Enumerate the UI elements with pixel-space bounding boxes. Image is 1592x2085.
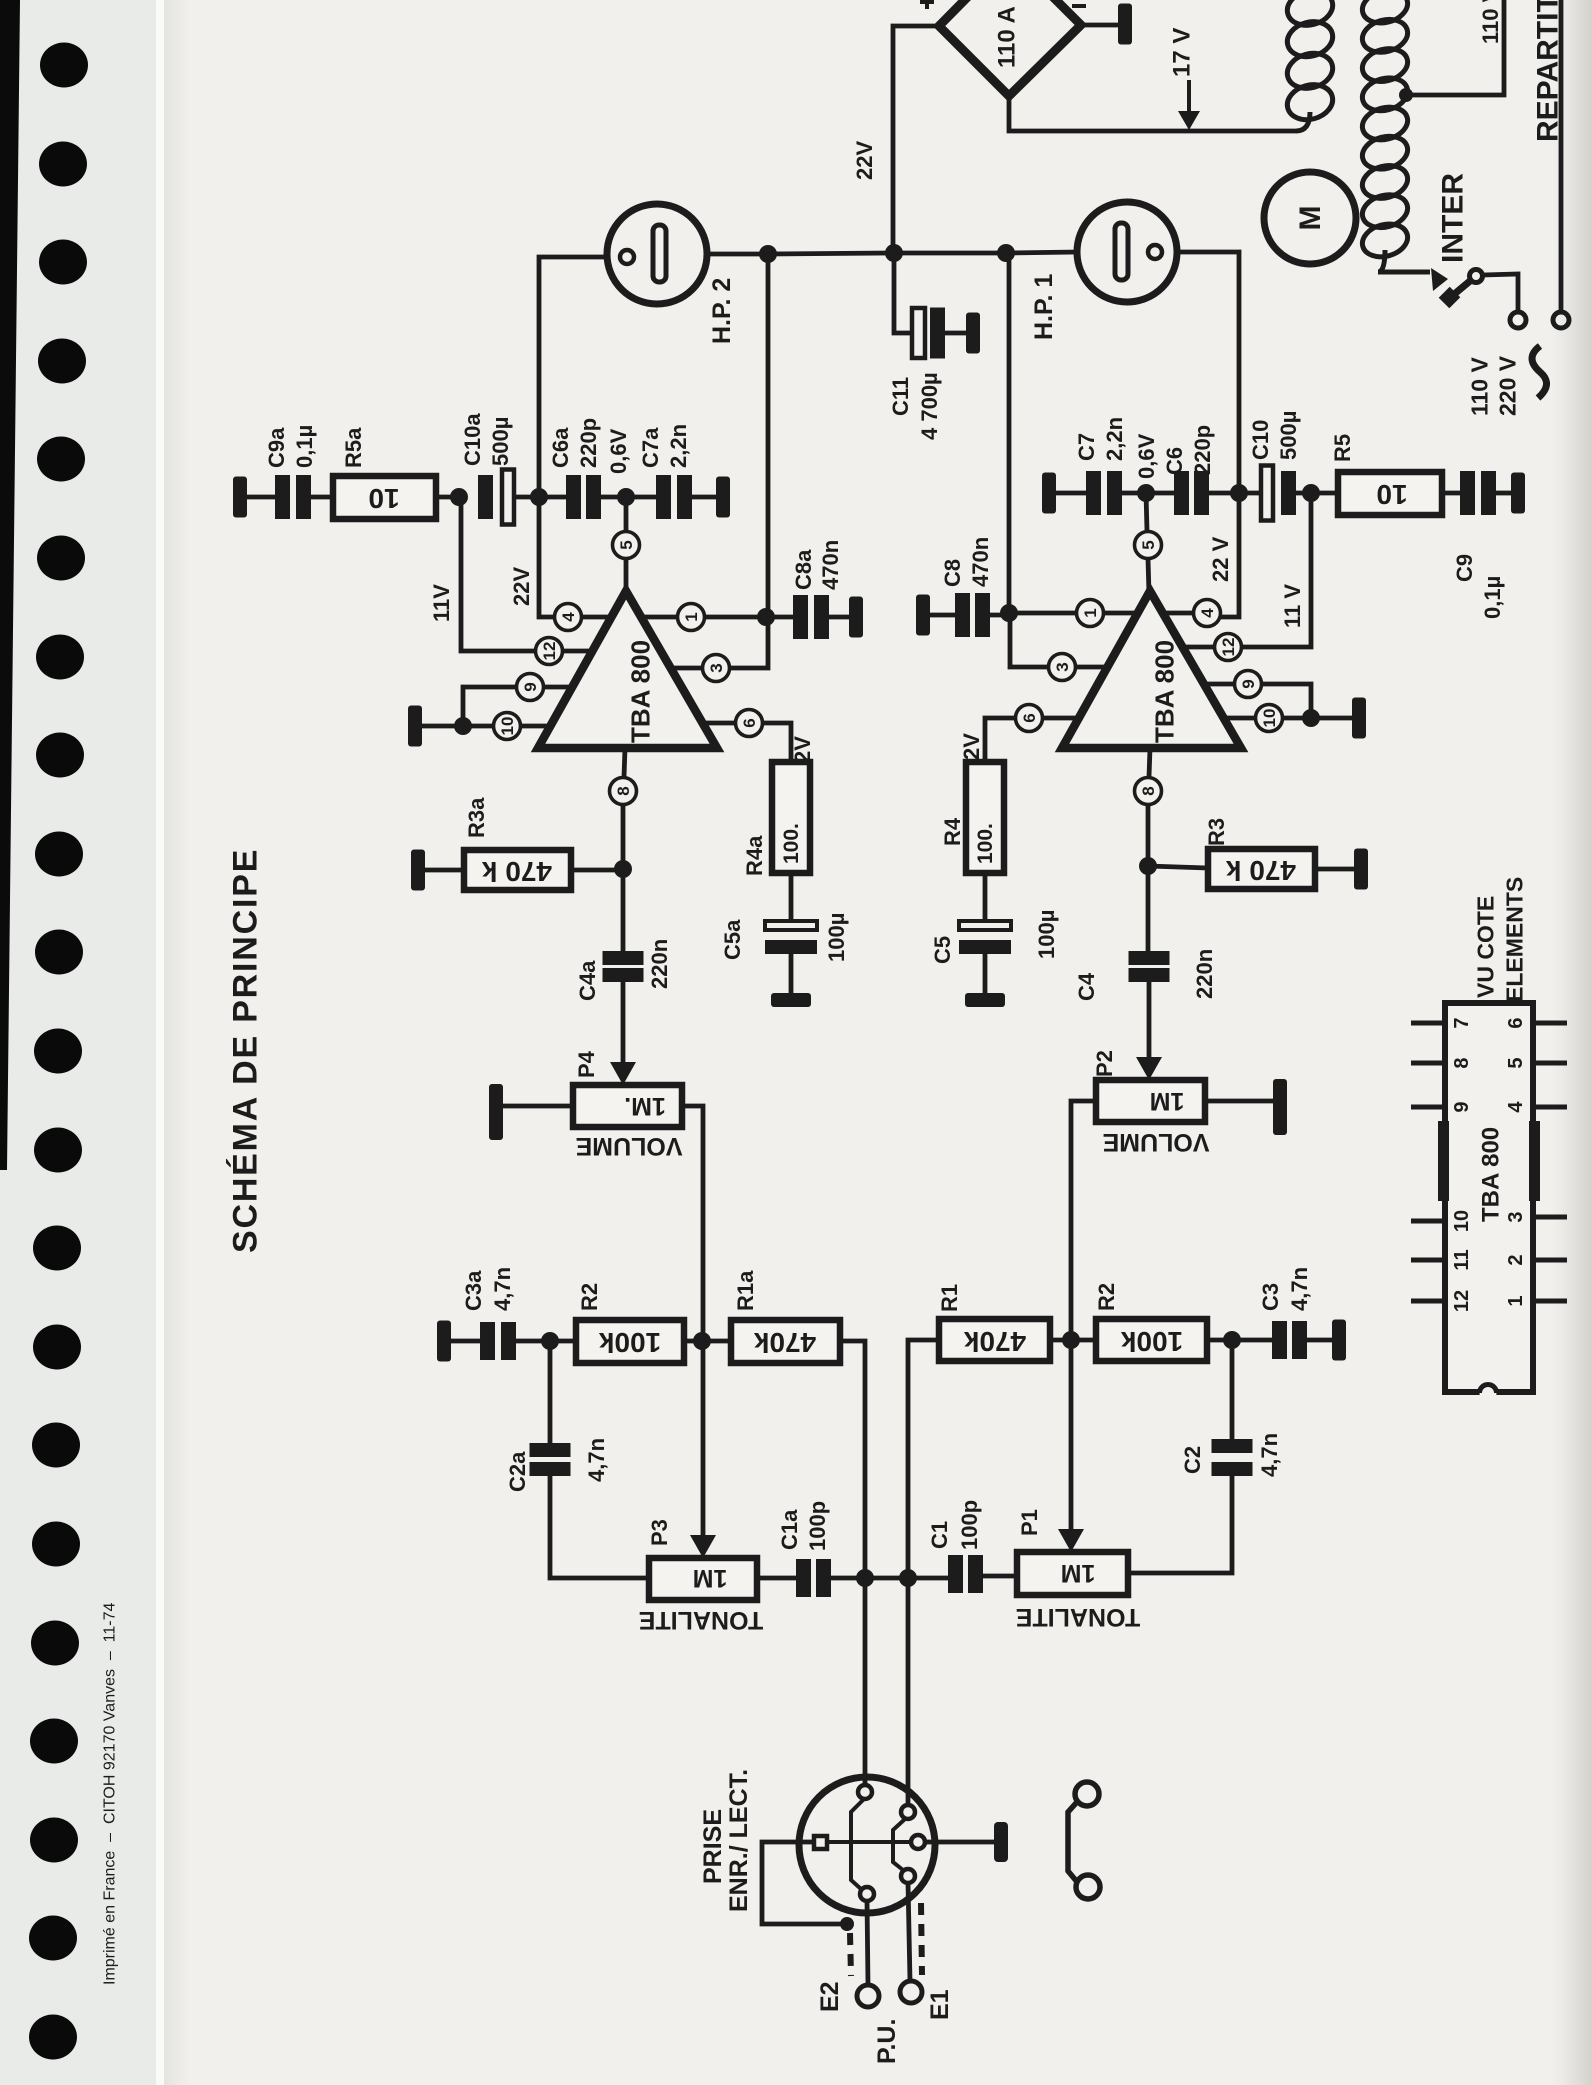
wire E2 line down to connector [863, 1578, 868, 1785]
svg-text:22V: 22V [509, 567, 534, 606]
svg-text:470k: 470k [963, 1326, 1026, 1357]
potentiometer P4 [573, 1085, 682, 1127]
svg-text:TONALITE: TONALITE [1016, 1603, 1141, 1631]
svg-text:C6: C6 [1162, 447, 1187, 475]
svg-text:100µ: 100µ [1034, 910, 1059, 959]
label + (bridge) [920, 0, 934, 9]
svg-text:10: 10 [1451, 1210, 1473, 1232]
svg-text:100p: 100p [805, 1501, 830, 1551]
svg-text:E1: E1 [926, 1989, 954, 2020]
pin 9 (TBA800 a) [517, 674, 544, 701]
svg-text:10: 10 [1260, 709, 1279, 728]
svg-text:100p: 100p [957, 1500, 982, 1550]
svg-text:C9a: C9a [264, 427, 289, 468]
wiper arrow into P1 [1069, 1338, 1074, 1531]
pin 1 (TBA800 a) [678, 604, 705, 631]
svg-text:470n: 470n [818, 540, 843, 590]
pin 12 (TBA800 1) [1215, 634, 1242, 661]
resistor R5a [333, 476, 436, 519]
wiper arrow into P4 [610, 1062, 636, 1085]
capacitor C6 (1) [1146, 491, 1174, 496]
pin 4 (TBA800 a) [555, 604, 582, 631]
label - (bridge) [1072, 4, 1086, 8]
wire 22V node down to pin 4 [539, 497, 556, 617]
resistor R3a [464, 850, 571, 890]
supply rail 22V (top) [768, 252, 1078, 254]
svg-text:H.P. 2: H.P. 2 [708, 278, 736, 344]
svg-text:VOLUME: VOLUME [1103, 1128, 1210, 1156]
capacitor C7a [626, 495, 656, 500]
node C3a/R2/C2a [541, 1332, 559, 1350]
svg-text:C7: C7 [1074, 433, 1099, 461]
node pin8/R3a/C4a [614, 860, 632, 878]
svg-text:3: 3 [707, 663, 726, 672]
speaker H.P.1 [1077, 202, 1177, 302]
svg-text:P1: P1 [1017, 1509, 1042, 1536]
svg-text:4: 4 [1198, 608, 1217, 618]
capacitor C1a [757, 1576, 796, 1581]
potentiometer P1 [1017, 1552, 1128, 1595]
svg-text:R4: R4 [940, 817, 965, 846]
node (R5a / C10a / 11V) [450, 488, 468, 506]
connector PRISE ENR./LECT. [799, 1777, 935, 1913]
pin 3 (TBA800 a) [703, 655, 730, 682]
svg-text:C6a: C6a [548, 427, 573, 468]
capacitor C8 (1) [916, 595, 930, 636]
resistor R3 (1) [1208, 849, 1315, 889]
capacitor C3a [437, 1321, 451, 1362]
svg-text:9: 9 [521, 682, 540, 691]
svg-text:R1a: R1a [733, 1270, 758, 1311]
dashed link E1 [921, 1903, 922, 1975]
svg-text:10: 10 [498, 717, 517, 736]
wire 11V down to pin 12 (1) [1242, 493, 1311, 647]
node output a (pin1/pin3/C8a) [757, 608, 775, 626]
capacitor C10a (electrolytic) [478, 475, 493, 519]
capacitor C2 (1) [1230, 1340, 1235, 1439]
svg-text:220p: 220p [1190, 425, 1215, 475]
svg-text:INTER: INTER [1437, 173, 1470, 263]
ground (connector) [994, 1822, 1008, 1862]
svg-text:VOLUME: VOLUME [576, 1132, 683, 1160]
svg-text:4,7n: 4,7n [490, 1267, 515, 1311]
potentiometer P3 [649, 1558, 757, 1600]
capacitor C10 (electrolytic) (1) [1239, 491, 1261, 496]
connector pin square [814, 1836, 827, 1849]
svg-text:2,2n: 2,2n [666, 424, 691, 468]
rectifier bridge 110A [939, 0, 1081, 96]
node pin8/R3/C4 (1) [1139, 857, 1157, 875]
node R2/R1a/P4 [693, 1332, 711, 1350]
wire node to pin 5 [624, 497, 629, 531]
svg-text:1M: 1M [1061, 1559, 1096, 1587]
terminal (switch) [1510, 312, 1526, 328]
dashed link E2 [850, 1933, 851, 1976]
resistor R4 (1) [966, 762, 1004, 873]
wire pin5 to apex [624, 559, 629, 594]
op-amp U1a TBA800 [538, 591, 717, 748]
wire P4 to R2/R1a node [682, 1106, 703, 1338]
svg-text:TBA 800: TBA 800 [1477, 1127, 1504, 1222]
svg-text:3: 3 [1505, 1211, 1527, 1222]
svg-text:220 V: 220 V [1495, 355, 1521, 416]
motor M [1264, 172, 1356, 264]
svg-text:0,6V: 0,6V [1134, 433, 1159, 479]
svg-text:1: 1 [682, 612, 701, 621]
speaker H.P.2 [607, 204, 707, 304]
node 0,6V (1) [1137, 484, 1155, 502]
svg-text:4: 4 [1505, 1101, 1527, 1113]
svg-text:9: 9 [1451, 1101, 1473, 1112]
svg-text:C4: C4 [1074, 972, 1099, 1001]
ground (P4) [489, 1084, 503, 1140]
svg-text:Imprimé en France – CITOH 92: Imprimé en France – CITOH 92170 Vanves –… [102, 1602, 119, 1985]
svg-text:M: M [1294, 206, 1327, 231]
primary tap 110 [1399, 88, 1413, 102]
svg-text:500µ: 500µ [488, 417, 513, 466]
svg-text:2,2n: 2,2n [1102, 417, 1127, 461]
DIP package TBA800 pinout [1445, 1003, 1533, 1392]
svg-text:8: 8 [1451, 1057, 1473, 1068]
svg-text:TONALITE: TONALITE [639, 1606, 764, 1634]
svg-text:2: 2 [1505, 1254, 1527, 1265]
connector pin right-top [901, 1805, 915, 1819]
wire bottom pin to P.U. terminal [867, 1901, 868, 1985]
svg-text:R3: R3 [1204, 818, 1229, 846]
svg-text:100.: 100. [780, 823, 803, 864]
svg-text:C5: C5 [930, 936, 955, 964]
wire 22V node up to H.P.2 [539, 257, 607, 497]
svg-text:C8a: C8a [791, 549, 816, 590]
connector pin right-bottom [901, 1869, 915, 1883]
node 22V (1) [1230, 484, 1248, 502]
ground (C5a) [771, 993, 811, 1007]
svg-text:0,1µ: 0,1µ [292, 425, 317, 468]
connector left lead [762, 1842, 845, 1924]
svg-text:8: 8 [1139, 786, 1158, 795]
capacitor C6a [539, 495, 566, 500]
svg-text:12: 12 [1219, 638, 1238, 657]
node 0,6V (pin 5) [617, 488, 635, 506]
ground (pin 10 a) [408, 706, 422, 747]
svg-text:12: 12 [1451, 1290, 1473, 1312]
capacitor C2a [548, 1341, 553, 1443]
svg-text:6: 6 [740, 718, 759, 727]
transformer primary winding [1359, 0, 1412, 28]
svg-text:4,7n: 4,7n [1287, 1267, 1312, 1311]
wire P2 left lead down [1071, 1101, 1096, 1338]
terminal (mains) [1553, 312, 1569, 328]
jumper link (cavalier) [1075, 1782, 1099, 1806]
svg-text:22 V: 22 V [1208, 536, 1233, 582]
svg-text:R3a: R3a [464, 797, 489, 838]
svg-text:100k: 100k [598, 1327, 661, 1358]
svg-text:R2: R2 [577, 1283, 602, 1311]
node R1/R2/P2 (1) [1062, 1331, 1080, 1349]
wire H.P.1 leg down to pin 1 node [1007, 253, 1012, 613]
arrow 17V [1187, 80, 1191, 112]
svg-text:VU COTE: VU COTE [1473, 896, 1499, 998]
svg-text:8: 8 [614, 786, 633, 795]
svg-text:ELEMENTS: ELEMENTS [1502, 877, 1528, 1002]
pin 8 (TBA800 1) [1135, 778, 1162, 805]
svg-text:470 k: 470 k [1226, 855, 1296, 886]
connector pin bottom [860, 1887, 874, 1901]
svg-text:6: 6 [1505, 1017, 1527, 1028]
node rail/H.P.1 [997, 244, 1015, 262]
pin 5 (TBA800 a) [613, 532, 640, 559]
mains line (repartiteur) [1559, 0, 1564, 311]
ground (C9) [1511, 473, 1525, 514]
node C1/R1/E1 [899, 1569, 917, 1587]
pin 9 (TBA800 1) [1235, 671, 1262, 698]
svg-text:5: 5 [1505, 1057, 1527, 1068]
wire input bus [865, 1576, 908, 1581]
node (connector left lead) [840, 1917, 854, 1931]
pin 10 (TBA800 a) [494, 713, 521, 740]
resistor R2 (a) [576, 1320, 684, 1363]
capacitor C4a [621, 869, 626, 951]
wire pin5 to apex (1) [1148, 559, 1149, 594]
svg-text:1M: 1M [1150, 1087, 1185, 1115]
svg-text:P3: P3 [647, 1519, 672, 1546]
svg-text:1M: 1M [693, 1564, 728, 1592]
svg-text:470k: 470k [753, 1327, 816, 1358]
svg-text:0,1µ: 0,1µ [1480, 576, 1505, 619]
svg-text:H.P. 1: H.P. 1 [1030, 274, 1058, 340]
svg-text:100k: 100k [1120, 1326, 1183, 1357]
svg-text:R4a: R4a [742, 835, 767, 876]
pin 10 (TBA800 1) [1256, 705, 1283, 732]
svg-text:C3a: C3a [461, 1270, 486, 1311]
svg-text:11V: 11V [429, 584, 454, 622]
svg-text:C2: C2 [1180, 1446, 1205, 1474]
capacitor C9 (1) [1442, 491, 1460, 496]
svg-text:C8: C8 [940, 559, 965, 587]
resistor R2 (1) [1096, 1319, 1207, 1361]
node H.P.2 right [759, 245, 777, 263]
svg-text:500µ: 500µ [1276, 411, 1301, 460]
ground (R3a) [411, 850, 425, 891]
svg-text:0,6V: 0,6V [606, 428, 631, 474]
wiper arrow into P3 [701, 1341, 706, 1537]
potentiometer P2 [1096, 1080, 1205, 1122]
svg-text:11 V: 11 V [1280, 584, 1305, 628]
svg-text:7: 7 [1451, 1017, 1473, 1028]
capacitor C5 (electrolytic) (1) [983, 873, 988, 919]
node R2/C3/C2 (1) [1223, 1331, 1241, 1349]
wire bridge + to rail (22V) [893, 26, 939, 251]
resistor R1a [731, 1320, 840, 1363]
resistor R4a [772, 762, 810, 873]
node 11V (1) [1302, 484, 1320, 502]
ground (pin 10 1) [1352, 698, 1366, 739]
wire H.P.2 to output node [707, 252, 768, 257]
svg-text:R2: R2 [1094, 1283, 1119, 1311]
svg-text:6: 6 [1020, 713, 1039, 722]
ground (C5 1) [965, 993, 1005, 1007]
capacitor C5a (electrolytic) [789, 873, 794, 919]
svg-text:C2a: C2a [505, 1451, 530, 1492]
node rail/bridge [885, 244, 903, 262]
pin 5 (TBA800 1) [1135, 532, 1162, 559]
connector pin top [858, 1785, 872, 1799]
svg-text:R5: R5 [1330, 434, 1355, 462]
connector internal lead (top to bottom pin) [851, 1799, 864, 1889]
svg-text:P2: P2 [1092, 1050, 1117, 1077]
capacitor C11 4700u [894, 253, 912, 333]
svg-text:9: 9 [1239, 679, 1258, 688]
svg-text:TBA 800: TBA 800 [626, 640, 656, 743]
svg-text:470n: 470n [968, 537, 993, 587]
wire R5a to node [436, 495, 459, 500]
wire node to pin 5 (1) [1146, 493, 1147, 531]
svg-text:4,7n: 4,7n [1257, 1433, 1282, 1477]
svg-text:2V: 2V [959, 733, 984, 760]
svg-text:C3: C3 [1258, 1283, 1283, 1311]
svg-text:470 k: 470 k [482, 856, 552, 887]
svg-text:4: 4 [559, 612, 578, 622]
svg-text:22V: 22V [852, 141, 877, 180]
svg-text:220p: 220p [576, 418, 601, 468]
svg-text:C11: C11 [888, 377, 913, 416]
ground (right of C7a) [716, 477, 730, 518]
label ~ (mains) [1532, 346, 1547, 398]
wire 22V down to pin 4 (1) [1221, 493, 1239, 617]
svg-text:110 V: 110 V [1478, 0, 1503, 44]
node pin9/pin10 [454, 717, 472, 735]
svg-text:5: 5 [1139, 540, 1158, 549]
svg-text:SCHÉMA DE PRINCIPE: SCHÉMA DE PRINCIPE [227, 848, 265, 1253]
node C1a/R1a/E2 [856, 1569, 874, 1587]
svg-text:R1: R1 [937, 1284, 962, 1312]
svg-text:PRISE: PRISE [699, 1809, 727, 1884]
svg-text:220n: 220n [647, 939, 672, 989]
node pin9/pin10 (1) [1302, 709, 1320, 727]
connector center line to ground [827, 1840, 911, 1844]
ground (bridge) [1118, 4, 1132, 45]
svg-text:100µ: 100µ [824, 913, 849, 962]
svg-text:TBA 800: TBA 800 [1150, 640, 1180, 743]
switch INTER [1431, 268, 1448, 291]
ground (R3 1) [1354, 849, 1368, 890]
svg-text:1: 1 [1505, 1295, 1527, 1306]
terminal E1 [900, 1981, 922, 2003]
wire bridge ~ to transformer secondary [1009, 96, 1296, 131]
ground (C11) [966, 313, 980, 354]
svg-text:1M.: 1M. [624, 1092, 666, 1120]
connector pin right-mid [911, 1835, 925, 1849]
svg-text:ENR./ LECT.: ENR./ LECT. [725, 1769, 753, 1912]
resistor R1 (1) [939, 1319, 1050, 1361]
svg-text:P.U.: P.U. [873, 2019, 901, 2064]
svg-text:P4: P4 [574, 1050, 599, 1078]
svg-text:C9: C9 [1452, 554, 1477, 582]
pin 4 (TBA800 1) [1194, 600, 1221, 627]
ground (left of C9a) [233, 477, 247, 518]
pin 8 (TBA800 a) [610, 778, 637, 805]
svg-text:3: 3 [1053, 662, 1072, 671]
svg-text:C1: C1 [927, 1521, 952, 1549]
svg-text:1: 1 [1081, 608, 1100, 617]
wire E1 line down to connector [906, 1578, 911, 1805]
svg-text:REPARTITEUR: REPARTITEUR [1532, 0, 1565, 142]
svg-text:10: 10 [368, 483, 399, 514]
resistor R5 (1) [1311, 491, 1338, 496]
svg-text:17 V: 17 V [1168, 28, 1195, 77]
terminal P.U. [857, 1985, 879, 2007]
connector internal lead (right pins) [893, 1819, 905, 1870]
capacitor C7 (1) [1042, 473, 1056, 514]
ground (C8a) [849, 597, 863, 638]
svg-text:110 A: 110 A [993, 6, 1020, 68]
wire 11V to pin 12 [461, 497, 535, 651]
capacitor C4 (1) [1146, 866, 1151, 951]
svg-text:C4a: C4a [575, 960, 600, 1001]
svg-text:4 700µ: 4 700µ [917, 372, 942, 440]
svg-text:220n: 220n [1192, 949, 1217, 999]
svg-text:110 V: 110 V [1467, 357, 1493, 416]
pin 6 (TBA800 1) [1016, 705, 1043, 732]
op-amp U1 TBA800 (1) [1062, 591, 1241, 748]
node (C10a / H.P.2 / pin 4) 22V [530, 488, 548, 506]
wire right-bottom pin to E1 terminal [908, 1883, 910, 1981]
svg-text:10: 10 [1376, 479, 1407, 510]
transformer secondary winding [1283, 0, 1336, 30]
wire H.P.2 leg down to pin 1 node [766, 254, 771, 617]
svg-text:E2: E2 [816, 1981, 844, 2012]
svg-text:100.: 100. [974, 823, 997, 864]
svg-text:C1a: C1a [777, 1509, 802, 1550]
capacitor C8a [766, 615, 793, 620]
wiper arrow into P2 [1136, 1057, 1162, 1080]
svg-text:C10a: C10a [460, 413, 485, 466]
svg-text:11: 11 [1451, 1249, 1473, 1270]
svg-text:R5a: R5a [341, 427, 366, 468]
pin 12 (TBA800 a) [536, 638, 563, 665]
ground (P2) [1205, 1099, 1273, 1104]
svg-text:12: 12 [540, 642, 559, 661]
svg-text:C5a: C5a [720, 919, 745, 960]
svg-text:5: 5 [617, 540, 636, 549]
svg-text:C10: C10 [1248, 420, 1273, 460]
capacitor C3 (1) [1232, 1338, 1272, 1343]
capacitor C9a [275, 475, 290, 519]
capacitor C1 (1) [908, 1576, 948, 1581]
pin 1 (TBA800 1) [1077, 600, 1104, 627]
svg-text:C7a: C7a [638, 427, 663, 468]
wire bridge - to ground [1081, 23, 1118, 28]
pin 6 (TBA800 a) [736, 710, 763, 737]
pin 3 (TBA800 1) [1049, 654, 1076, 681]
node output 1 (pin1/pin3/C8) [1000, 604, 1018, 622]
svg-text:4,7n: 4,7n [584, 1438, 609, 1482]
